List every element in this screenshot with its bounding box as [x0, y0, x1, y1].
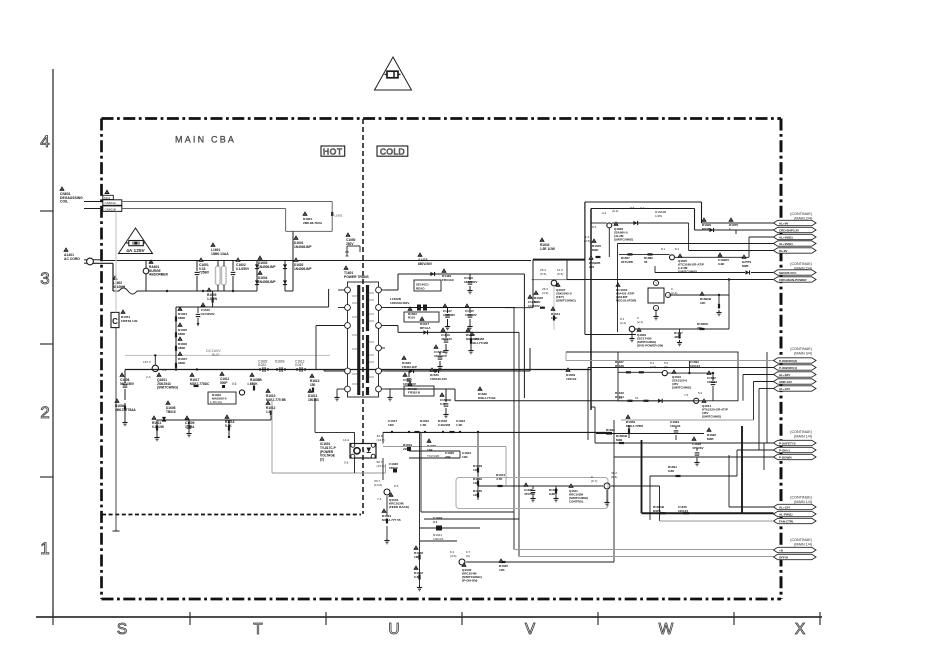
svg-text:C: C — [112, 317, 118, 326]
svg-text:725BV: 725BV — [199, 270, 210, 274]
svg-text:(SWITCHING): (SWITCHING) — [702, 414, 721, 418]
svg-text:4-6: 4-6 — [247, 382, 252, 386]
svg-text:150: 150 — [310, 383, 316, 387]
svg-text:T: T — [253, 621, 263, 638]
svg-text:(FEED BACK): (FEED BACK) — [389, 505, 409, 509]
svg-text:(CONTINUE): (CONTINUE) — [790, 496, 812, 500]
svg-text:0.1/250V: 0.1/250V — [236, 267, 250, 271]
svg-text:(13.6): (13.6) — [374, 483, 382, 487]
svg-text:0.022: 0.022 — [258, 363, 266, 367]
svg-text:13: 13 — [619, 396, 623, 400]
svg-text:R110: R110 — [408, 316, 415, 320]
svg-text:(4.6): (4.6) — [450, 554, 456, 558]
svg-text:(2): (2) — [320, 457, 324, 461]
svg-text:FR302-B: FR302-B — [408, 391, 421, 395]
svg-text:(SWITCHING): (SWITCHING) — [672, 385, 691, 389]
svg-text:(2.1): (2.1) — [637, 320, 643, 324]
svg-text:FAN-CTRL: FAN-CTRL — [779, 519, 794, 523]
svg-text:BUS: BUS — [212, 353, 220, 357]
svg-text:COIL: COIL — [60, 199, 68, 203]
svg-text:0.1: 0.1 — [433, 520, 438, 524]
svg-text:3.9: 3.9 — [162, 368, 167, 372]
svg-text:8.5: 8.5 — [630, 206, 635, 210]
svg-text:(2.4): (2.4) — [671, 291, 677, 295]
svg-text:680K: 680K — [178, 332, 186, 336]
svg-text:43K: 43K — [445, 455, 451, 459]
svg-text:W: W — [659, 621, 674, 638]
svg-text:8.5: 8.5 — [592, 225, 597, 229]
svg-text:D1603: D1603 — [275, 360, 285, 364]
svg-text:P-ON+1: P-ON+1 — [779, 448, 790, 452]
svg-text:(0): (0) — [664, 365, 668, 369]
svg-text:CN601A: CN601A — [105, 201, 116, 205]
svg-text:AMP-12V: AMP-12V — [779, 380, 792, 384]
svg-text:1KC/36V: 1KC/36V — [443, 313, 455, 317]
svg-text:2-3: 2-3 — [146, 375, 151, 379]
svg-text:1KV/200V: 1KV/200V — [201, 312, 215, 316]
svg-text:680K: 680K — [178, 316, 186, 320]
svg-text:AC CORD: AC CORD — [64, 257, 80, 261]
svg-text:1.3K(1A): 1.3K(1A) — [210, 400, 222, 404]
svg-text:16: 16 — [635, 396, 639, 400]
svg-text:M1EJ-775 5B: M1EJ-775 5B — [266, 398, 286, 402]
svg-text:1DC: 1DC — [388, 423, 395, 427]
svg-text:(CONTINUE): (CONTINUE) — [790, 430, 812, 434]
svg-text:M1EJ-777 55: M1EJ-777 55 — [382, 518, 401, 522]
svg-text:(0): (0) — [466, 554, 470, 558]
svg-text:REGULATOR): REGULATOR) — [616, 299, 636, 303]
svg-text:(6.7): (6.7) — [591, 479, 597, 483]
svg-text:X: X — [795, 621, 806, 638]
svg-text:(CONTINUE): (CONTINUE) — [790, 262, 812, 266]
svg-text:POWER TRANS: POWER TRANS — [344, 275, 370, 279]
svg-text:1.5K: 1.5K — [551, 316, 558, 320]
svg-text:2: 2 — [40, 403, 49, 422]
svg-text:(SWITCHING): (SWITCHING) — [614, 237, 633, 241]
svg-text:(MAIN 1/4): (MAIN 1/4) — [794, 435, 812, 439]
svg-text:M1EJ-778DC: M1EJ-778DC — [190, 382, 210, 386]
svg-text:43K: 43K — [674, 335, 680, 339]
svg-text:AL+12V: AL+12V — [779, 505, 790, 509]
svg-text:M1PC: M1PC — [653, 509, 662, 513]
svg-text:1: 1 — [729, 227, 731, 231]
svg-text:167.3: 167.3 — [143, 360, 151, 364]
svg-text:6.8K: 6.8K — [549, 492, 556, 496]
svg-text:M2B: M2B — [707, 437, 714, 441]
svg-text:18C/360V: 18C/360V — [464, 280, 477, 284]
svg-text:P-DOWN: P-DOWN — [779, 455, 792, 459]
svg-text:100133: 100133 — [670, 424, 681, 428]
svg-text:(MAIN 1/4): (MAIN 1/4) — [794, 500, 812, 504]
svg-text:CN601B: CN601B — [105, 207, 116, 211]
svg-text:D/+9V: D/+9V — [779, 249, 787, 253]
svg-text:4700/6V: 4700/6V — [692, 446, 704, 450]
svg-text:CONTROL: CONTROL — [569, 499, 584, 503]
svg-text:CRD-MAIN-POWER: CRD-MAIN-POWER — [779, 278, 807, 282]
svg-text:1/2W: 1/2W — [655, 214, 662, 218]
svg-text:6.8B: 6.8B — [414, 575, 421, 579]
svg-text:(MAIN 3/4): (MAIN 3/4) — [794, 352, 812, 356]
svg-text:COLD: COLD — [380, 146, 405, 156]
svg-text:CRD-BHP3.3V: CRD-BHP3.3V — [779, 228, 799, 232]
svg-text:10K: 10K — [427, 448, 433, 452]
svg-text:(CONTINUE): (CONTINUE) — [790, 212, 812, 216]
svg-text:(DVD-POWER-ON): (DVD-POWER-ON) — [637, 343, 663, 347]
svg-text:4: 4 — [40, 132, 49, 151]
svg-text:100123: 100123 — [678, 509, 688, 513]
svg-text:AL+9V(B): AL+9V(B) — [779, 235, 793, 239]
svg-text:1N4008-B/P: 1N4008-B/P — [258, 265, 276, 269]
svg-text:A601: A601 — [104, 196, 111, 200]
svg-text:470/16V: 470/16V — [441, 337, 452, 341]
svg-text:SHUNT-VCC: SHUNT-VCC — [779, 271, 797, 275]
svg-text:1N4008-B/P: 1N4008-B/P — [294, 267, 312, 271]
svg-text:1SR139-100: 1SR139-100 — [430, 377, 447, 381]
svg-text:7.4: 7.4 — [377, 497, 382, 501]
svg-text:HOT: HOT — [323, 146, 343, 156]
svg-text:10K: 10K — [473, 481, 479, 485]
svg-text:880V/26V: 880V/26V — [418, 262, 433, 266]
svg-text:8.1: 8.1 — [675, 247, 680, 251]
svg-text:1N4008-B/P: 1N4008-B/P — [258, 280, 276, 284]
svg-text:4A 125V: 4A 125V — [126, 248, 145, 254]
svg-text:S: S — [117, 621, 127, 638]
svg-text:10K: 10K — [473, 468, 479, 472]
svg-text:100122: 100122 — [566, 377, 577, 381]
svg-text:M2B: M2B — [742, 264, 749, 268]
svg-text:0.47: 0.47 — [440, 402, 446, 406]
svg-text:-4.2: -4.2 — [601, 211, 607, 215]
svg-text:OFF/H: OFF/H — [779, 555, 788, 559]
svg-text:AL+9V: AL+9V — [779, 221, 788, 225]
svg-text:ABSORBER: ABSORBER — [149, 272, 168, 276]
svg-text:M2B: M2B — [606, 432, 613, 436]
svg-text:2M6.88-7K0A: 2M6.88-7K0A — [303, 221, 323, 225]
svg-text:1000/10V: 1000/10V — [434, 354, 447, 358]
svg-text:(SWITCHING): (SWITCHING) — [556, 299, 576, 303]
svg-text:(5.5): (5.5) — [540, 272, 546, 276]
svg-text:470/50V: 470/50V — [524, 492, 535, 496]
svg-text:M1EJ-7711B: M1EJ-7711B — [478, 396, 496, 400]
svg-text:5.0: 5.0 — [698, 391, 703, 395]
svg-text:0.2: 0.2 — [640, 206, 645, 210]
svg-text:1C/160V: 1C/160V — [465, 313, 477, 317]
svg-text:10K: 10K — [700, 301, 706, 305]
svg-text:AL+33V: AL+33V — [779, 373, 790, 377]
svg-text:FR302-B/P: FR302-B/P — [402, 365, 417, 369]
svg-text:RP1AA: RP1AA — [420, 326, 431, 330]
svg-text:V: V — [525, 621, 536, 638]
svg-text:M2B: M2B — [616, 438, 623, 442]
svg-text:AL+9V(B): AL+9V(B) — [779, 242, 793, 246]
svg-text:AL-PW(1): AL-PW(1) — [779, 512, 793, 516]
svg-text:680K: 680K — [178, 361, 186, 365]
svg-text:(SWITCHING): (SWITCHING) — [157, 386, 178, 390]
svg-text:TB015: TB015 — [166, 410, 176, 414]
svg-text:P-ON/OFF(1): P-ON/OFF(1) — [779, 366, 797, 370]
svg-text:1000UH/160V: 1000UH/160V — [390, 301, 410, 305]
svg-text:1N4008-B/P: 1N4008-B/P — [294, 245, 312, 249]
svg-text:(4.0): (4.0) — [650, 365, 656, 369]
svg-text:MAIN CBA: MAIN CBA — [175, 135, 236, 145]
svg-text:(CONTINUE): (CONTINUE) — [790, 538, 812, 542]
svg-text:1.5K: 1.5K — [456, 423, 463, 427]
svg-text:U: U — [388, 621, 399, 638]
svg-text:10K: 10K — [462, 455, 468, 459]
svg-text:0.6: 0.6 — [232, 382, 237, 386]
svg-text:(5.5): (5.5) — [557, 272, 563, 276]
svg-text:150183: 150183 — [308, 398, 319, 402]
svg-text:220: 220 — [589, 265, 594, 269]
svg-text:(P-ON-ON): (P-ON-ON) — [462, 579, 477, 583]
svg-text:3.9K: 3.9K — [718, 262, 725, 266]
svg-text:S: S — [363, 449, 365, 453]
svg-text:15M0.13AA: 15M0.13AA — [211, 252, 229, 256]
svg-text:(2.2): (2.2) — [620, 321, 626, 325]
svg-text:AL+12V: AL+12V — [779, 387, 790, 391]
svg-text:14-2: 14-2 — [343, 438, 349, 442]
svg-text:(CONTINUE): (CONTINUE) — [790, 347, 812, 351]
svg-text:FWF63 1JE: FWF63 1JE — [121, 319, 138, 323]
svg-text:1: 1 — [40, 539, 49, 558]
svg-text:M1EJ-7712M: M1EJ-7712M — [470, 341, 489, 345]
svg-text:P-ON/OFF(2): P-ON/OFF(2) — [779, 359, 797, 363]
svg-text:7.5: 7.5 — [684, 393, 689, 397]
svg-text:TV2 R20: TV2 R20 — [427, 454, 439, 458]
svg-text:100123: 100123 — [433, 537, 444, 541]
svg-text:56: 56 — [644, 260, 648, 264]
svg-text:READ: READ — [416, 286, 425, 290]
svg-text:(4.5): (4.5) — [584, 239, 590, 243]
svg-text:P-SAFETY2: P-SAFETY2 — [779, 441, 796, 445]
svg-text:(0.4): (0.4) — [612, 209, 618, 213]
svg-text:M2K: M2K — [534, 300, 541, 304]
svg-text:100123: 100123 — [707, 380, 717, 384]
svg-text:1M: 1M — [414, 555, 419, 559]
svg-text:0.8: 0.8 — [344, 461, 349, 465]
svg-text:4L10MH: 4L10MH — [113, 285, 126, 289]
svg-text:6.8K: 6.8K — [668, 469, 675, 473]
svg-text:2071/2W: 2071/2W — [621, 260, 633, 264]
svg-text:M2K: M2K — [592, 248, 599, 252]
svg-text:8.1: 8.1 — [661, 247, 666, 251]
svg-text:8.3: 8.3 — [394, 484, 399, 488]
svg-text:L1602: L1602 — [335, 214, 343, 218]
svg-text:1.5E 1/2W: 1.5E 1/2W — [540, 247, 555, 251]
svg-text:1.5K: 1.5K — [420, 423, 427, 427]
svg-text:0.0022M: 0.0022M — [438, 423, 450, 427]
svg-text:560V/36V: 560V/36V — [120, 382, 135, 386]
svg-text:12K: 12K — [473, 493, 479, 497]
svg-text:FR04AC: FR04AC — [442, 278, 455, 282]
svg-text:(4.9): (4.9) — [542, 291, 548, 295]
svg-text:250V: 250V — [346, 242, 354, 246]
svg-text:10K: 10K — [499, 568, 505, 572]
svg-text:(MAIN 1/4): (MAIN 1/4) — [794, 543, 812, 547]
svg-text:500P: 500P — [220, 381, 228, 385]
svg-text:0.047: 0.047 — [295, 363, 303, 367]
svg-text:680K: 680K — [178, 346, 186, 350]
svg-text:3: 3 — [40, 269, 49, 288]
